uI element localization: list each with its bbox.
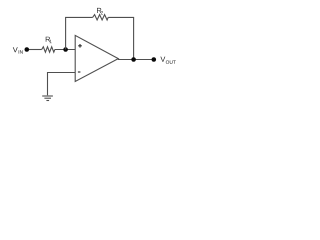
ground	[42, 96, 53, 101]
wire: feedback top left segment	[65, 16, 93, 18]
wire: feedback left vertical	[65, 17, 67, 49]
wire: feedback top right segment	[108, 16, 134, 18]
op-amp U1	[75, 35, 118, 81]
op-amp + input pin mark	[78, 44, 82, 48]
wire: ground to op-amp - input	[48, 73, 76, 96]
node: output junction with feedback	[131, 57, 136, 62]
node: VIN terminal	[25, 47, 30, 52]
op-amp - input pin mark	[78, 71, 81, 73]
node: VOUT terminal	[152, 57, 157, 62]
wire: op-amp output	[118, 59, 154, 61]
wire: feedback right vertical down to output	[133, 17, 135, 59]
resistor R1	[42, 47, 55, 52]
resistor R2	[93, 15, 109, 20]
label VIN	[13, 47, 23, 53]
label R1	[46, 37, 52, 43]
label VOUT	[160, 57, 175, 64]
wire: R1 to op-amp + input	[55, 49, 75, 51]
node: junction of R1, feedback and + input	[63, 47, 68, 52]
wire: VIN terminal to R1	[27, 49, 42, 51]
label R2	[97, 8, 103, 14]
